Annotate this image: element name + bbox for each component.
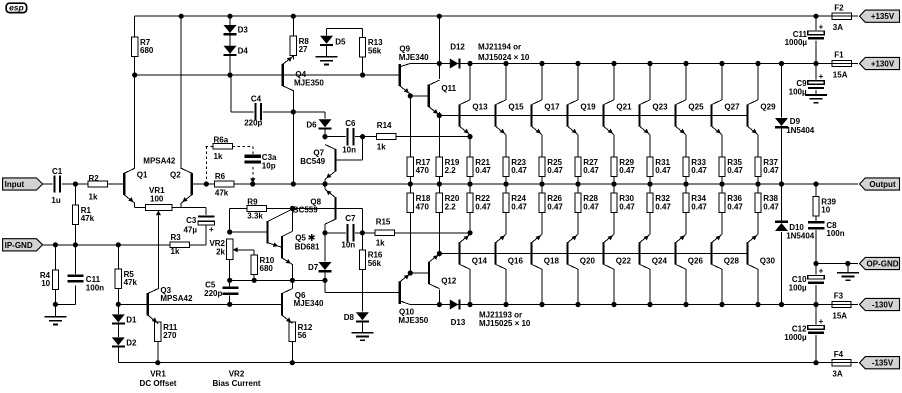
svg-text:D6: D6 xyxy=(306,120,317,129)
resistor R21 xyxy=(467,157,473,177)
svg-text:1k: 1k xyxy=(377,142,386,151)
resistor R22 xyxy=(467,193,473,213)
resistor R39 xyxy=(813,197,819,217)
resistor R10 xyxy=(251,255,257,275)
svg-text:Q14: Q14 xyxy=(472,256,488,265)
svg-text:Q17: Q17 xyxy=(544,103,560,112)
capacitor C5 xyxy=(222,286,238,295)
svg-text:R6: R6 xyxy=(215,172,226,181)
svg-text:Q29: Q29 xyxy=(760,103,776,112)
junction xyxy=(179,14,184,19)
resistor R31 xyxy=(647,157,653,177)
transistor Q26 xyxy=(674,242,676,264)
wire xyxy=(851,362,858,364)
wire R19-R20 column xyxy=(438,177,440,194)
junction xyxy=(575,302,580,307)
svg-text:270: 270 xyxy=(163,331,177,340)
capacitor C11 input xyxy=(67,274,83,283)
junction xyxy=(611,302,616,307)
svg-text:100n: 100n xyxy=(86,284,104,293)
svg-text:+: + xyxy=(209,225,214,234)
junction xyxy=(779,181,784,186)
svg-text:MJ15025 × 10: MJ15025 × 10 xyxy=(479,319,531,328)
transistor Q17 xyxy=(530,104,532,126)
wire Q12 base xyxy=(410,272,429,274)
wire -135V bottom rail xyxy=(118,362,832,364)
svg-text:-135V: -135V xyxy=(872,359,894,368)
wire Q1 emitter to VR1 xyxy=(134,203,136,207)
label Q5 heatsink star xyxy=(311,234,313,241)
svg-text:1000µ: 1000µ xyxy=(785,38,808,47)
svg-text:0.47: 0.47 xyxy=(619,202,635,211)
junction xyxy=(227,14,232,19)
junction xyxy=(467,134,472,139)
svg-text:0.47: 0.47 xyxy=(583,202,599,211)
resistor R4 xyxy=(52,270,58,290)
svg-text:Q30: Q30 xyxy=(760,256,776,265)
transistor Q14 xyxy=(458,242,460,264)
junction xyxy=(647,181,652,186)
potentiometer VR2 xyxy=(227,239,233,259)
svg-text:Bias Current: Bias Current xyxy=(212,379,260,388)
junction xyxy=(611,61,616,66)
junction xyxy=(360,72,365,77)
resistor R34 xyxy=(683,193,689,213)
svg-text:Q16: Q16 xyxy=(508,256,524,265)
resistor R2 xyxy=(88,181,108,187)
wire R8 column xyxy=(292,16,294,36)
diode D13 xyxy=(450,300,459,310)
wire R18-Q10 emitter column xyxy=(409,213,411,275)
svg-text:220p: 220p xyxy=(244,119,262,128)
svg-text:56: 56 xyxy=(298,331,307,340)
wire C6-R14 line xyxy=(325,136,470,138)
resistor R19 xyxy=(436,157,442,177)
wire Q4 collector to output rail xyxy=(292,112,294,184)
wire D4-C4 link xyxy=(230,75,232,112)
svg-text:OP-GND: OP-GND xyxy=(867,260,899,269)
svg-text:0.47: 0.47 xyxy=(619,166,635,175)
svg-text:+: + xyxy=(819,72,824,81)
resistor R28 xyxy=(575,193,581,213)
junction xyxy=(437,251,442,256)
wire output column Q21 xyxy=(613,64,615,101)
svg-text:1k: 1k xyxy=(89,192,98,201)
svg-text:Q5: Q5 xyxy=(295,233,306,242)
svg-text:R6a: R6a xyxy=(214,136,229,145)
svg-text:15A: 15A xyxy=(832,311,847,320)
svg-text:100: 100 xyxy=(150,194,164,203)
svg-text:1k: 1k xyxy=(171,247,180,256)
svg-text:15A: 15A xyxy=(833,70,848,79)
junction xyxy=(755,181,760,186)
junction xyxy=(503,61,508,66)
junction xyxy=(73,242,78,247)
wire D5 ground lead xyxy=(326,45,328,57)
wire Q9 collector bend xyxy=(400,64,410,67)
svg-text:DC Offset: DC Offset xyxy=(140,379,177,388)
wire xyxy=(74,285,76,304)
svg-text:D2: D2 xyxy=(126,338,137,347)
wire VR2 bottom line xyxy=(230,279,325,281)
svg-text:R15: R15 xyxy=(376,218,391,227)
wire R7 column xyxy=(134,16,136,75)
svg-text:C6: C6 xyxy=(345,119,356,128)
svg-text:MJ21194 or: MJ21194 or xyxy=(478,42,521,51)
wire D6-C6 lead xyxy=(324,129,326,137)
resistor R29 xyxy=(611,157,617,177)
transistor Q5 darlington output xyxy=(281,236,283,258)
svg-text:0.47: 0.47 xyxy=(475,166,491,175)
resistor R9 xyxy=(247,206,266,212)
fuse F4 xyxy=(832,362,851,364)
svg-text:220p: 220p xyxy=(204,289,222,298)
capacitor C3a xyxy=(245,155,261,164)
junction xyxy=(250,181,255,186)
transistor Q15 xyxy=(494,104,496,126)
transistor Q16 xyxy=(494,242,496,264)
wire input line xyxy=(43,183,123,185)
svg-text:Q11: Q11 xyxy=(441,84,456,93)
wire Q12 emitter lead xyxy=(438,254,440,257)
transistor Q4 xyxy=(282,64,284,86)
wire C7-R15 line xyxy=(325,232,470,234)
wire output column Q25 xyxy=(685,64,687,101)
transistor Q23 xyxy=(638,104,640,126)
svg-text:D7: D7 xyxy=(308,263,319,272)
transistor Q8 xyxy=(334,197,336,219)
wire R39 leads xyxy=(815,184,817,197)
fuse F1 xyxy=(832,63,851,65)
wire xyxy=(229,208,231,232)
wire Q3-Q6 base line xyxy=(118,303,282,305)
wire Q1-collector / VAS base line xyxy=(135,74,401,76)
svg-text:VR1: VR1 xyxy=(150,369,166,378)
svg-text:680: 680 xyxy=(140,46,154,55)
svg-text:0.47: 0.47 xyxy=(583,166,599,175)
net flag OP-GND xyxy=(860,257,900,269)
capacitor C10 xyxy=(808,275,825,286)
wire R17-R18 column xyxy=(409,177,411,194)
diode D2 xyxy=(112,337,125,345)
wire Q5 collector node xyxy=(292,208,294,231)
svg-text:+: + xyxy=(819,267,824,276)
diode D3 xyxy=(224,25,237,33)
wire Q3 emitter-R11 xyxy=(157,323,159,325)
svg-text:MJE350: MJE350 xyxy=(294,79,324,88)
wire R5 lead xyxy=(117,245,119,269)
capacitor C6 xyxy=(346,128,355,146)
ESP logo xyxy=(6,3,26,12)
svg-text:F2: F2 xyxy=(834,3,844,12)
wire NPN output base rail xyxy=(439,115,748,117)
svg-text:+130V: +130V xyxy=(871,60,895,69)
wire Q7 collector lead xyxy=(324,137,326,140)
svg-text:47k: 47k xyxy=(81,214,95,223)
wire Q5 base lead xyxy=(230,231,268,233)
transistor Q19 xyxy=(566,104,568,126)
svg-text:1000µ: 1000µ xyxy=(784,333,807,342)
svg-text:BC559: BC559 xyxy=(293,206,318,215)
svg-text:0.47: 0.47 xyxy=(547,202,563,211)
svg-text:D1: D1 xyxy=(126,315,137,324)
wire VR2 lower lead xyxy=(229,259,231,280)
resistor R14 xyxy=(376,134,396,140)
wire D10 leads xyxy=(781,184,783,222)
diode D9 xyxy=(775,118,788,126)
resistor R37 xyxy=(755,157,761,177)
svg-text:R2: R2 xyxy=(89,174,100,183)
resistor R26 xyxy=(539,193,545,213)
ground D5 xyxy=(316,56,338,58)
wire C5 lower lead xyxy=(229,295,231,304)
resistor R5 xyxy=(115,269,121,289)
junction xyxy=(683,181,688,186)
svg-text:VR2: VR2 xyxy=(229,369,245,378)
resistor R16 xyxy=(359,250,365,269)
svg-text:Q25: Q25 xyxy=(688,103,704,112)
svg-text:0.47: 0.47 xyxy=(691,202,707,211)
capacitor C4 xyxy=(254,103,263,121)
svg-text:56k: 56k xyxy=(368,259,382,268)
wire output column Q27 xyxy=(721,64,723,101)
resistor R7 xyxy=(132,37,138,57)
junction xyxy=(813,181,818,186)
svg-text:47k: 47k xyxy=(124,278,138,287)
junction xyxy=(575,181,580,186)
svg-text:Q21: Q21 xyxy=(616,103,632,112)
svg-text:D12: D12 xyxy=(450,43,465,52)
capacitor C8 xyxy=(808,221,824,230)
junction xyxy=(779,61,784,66)
wire LTP emitter / VR1 line xyxy=(135,207,207,209)
svg-text:0.47: 0.47 xyxy=(763,166,779,175)
wire D5-R13 link xyxy=(327,28,363,30)
wire Q7 base lead xyxy=(336,159,363,161)
resistor R13 xyxy=(360,37,366,57)
junction xyxy=(503,181,508,186)
wire R20 lead xyxy=(438,213,440,254)
capacitor C12 xyxy=(808,325,825,336)
svg-text:1u: 1u xyxy=(51,196,60,205)
transistor Q18 xyxy=(530,242,532,264)
svg-text:3.3k: 3.3k xyxy=(247,212,263,221)
net flag Output xyxy=(860,178,900,190)
svg-text:esp: esp xyxy=(9,3,24,13)
svg-text:+: + xyxy=(819,317,824,326)
wire C8 lower lead xyxy=(815,229,817,263)
wire D6 link xyxy=(293,111,325,113)
svg-text:Q26: Q26 xyxy=(688,256,704,265)
junction xyxy=(813,61,818,66)
diode D5 xyxy=(320,36,333,44)
wire R10 lower lead xyxy=(253,275,255,281)
wire xyxy=(54,290,56,305)
junction xyxy=(611,181,616,186)
transistor Q1 xyxy=(123,173,125,195)
svg-text:27: 27 xyxy=(299,45,308,54)
wire R1 leads xyxy=(74,184,76,205)
wire C11 leads xyxy=(815,16,817,30)
svg-text:1k: 1k xyxy=(376,238,385,247)
junction xyxy=(291,14,296,19)
wire xyxy=(851,304,858,306)
transistor Q6 xyxy=(281,293,283,315)
wire Q8 collector lead xyxy=(324,224,326,233)
wire IP-GND rail xyxy=(43,244,206,246)
junction xyxy=(575,61,580,66)
svg-text:C4: C4 xyxy=(251,95,262,104)
wire R16-D8 link xyxy=(361,269,363,311)
svg-text:0.47: 0.47 xyxy=(655,166,671,175)
resistor R18 xyxy=(407,193,413,213)
svg-text:0.47: 0.47 xyxy=(511,202,527,211)
wire Q8 emitter lead xyxy=(324,184,326,189)
resistor R35 xyxy=(719,157,725,177)
wire Q12 collector lead xyxy=(438,289,440,304)
wire Q7 emitter lead xyxy=(324,179,326,184)
svg-text:MJE340: MJE340 xyxy=(399,53,429,62)
diode D8 xyxy=(356,312,369,320)
junction xyxy=(647,61,652,66)
svg-text:Input: Input xyxy=(5,180,25,189)
resistor R3 xyxy=(170,242,190,248)
wire xyxy=(74,245,76,275)
potentiometer VR1 xyxy=(146,205,173,211)
svg-text:Q15: Q15 xyxy=(508,103,524,112)
svg-text:Q23: Q23 xyxy=(652,103,668,112)
wire Q4 emitter lead xyxy=(292,56,294,60)
svg-text:0.47: 0.47 xyxy=(475,202,491,211)
svg-text:D4: D4 xyxy=(238,46,249,55)
svg-text:2.2: 2.2 xyxy=(445,202,457,211)
junction xyxy=(227,278,232,283)
junction xyxy=(322,278,327,283)
svg-text:Q22: Q22 xyxy=(616,256,632,265)
wire +135V top rail xyxy=(135,15,832,17)
wire Q5 emitter lead xyxy=(292,264,294,280)
svg-text:Q2: Q2 xyxy=(170,170,181,179)
junction xyxy=(539,302,544,307)
svg-text:0.47: 0.47 xyxy=(655,202,671,211)
net flag +130V xyxy=(860,57,900,69)
svg-text:D3: D3 xyxy=(238,26,249,35)
wire xyxy=(851,15,857,17)
ground D8 xyxy=(351,332,373,334)
transistor Q13 xyxy=(458,104,460,126)
junction xyxy=(227,302,232,307)
wire C10 leads xyxy=(815,264,817,275)
transistor Q11 xyxy=(428,85,430,107)
wire R10 wiper link xyxy=(236,249,254,251)
wire xyxy=(205,208,207,215)
junction xyxy=(437,61,442,66)
junction xyxy=(539,181,544,186)
junction xyxy=(73,181,78,186)
transistor Q29 xyxy=(746,104,748,126)
transistor Q7 xyxy=(334,149,336,171)
svg-text:R14: R14 xyxy=(377,121,392,130)
wire C3a dashed leads xyxy=(252,146,254,154)
wire xyxy=(54,304,56,317)
svg-text:1k: 1k xyxy=(214,152,223,161)
junction xyxy=(155,360,160,365)
resistor R25 xyxy=(539,157,545,177)
svg-text:100n: 100n xyxy=(826,229,844,238)
svg-text:0.47: 0.47 xyxy=(727,202,743,211)
wire OP-GND line xyxy=(816,263,858,265)
svg-text:IP-GND: IP-GND xyxy=(5,241,33,250)
svg-text:MPSA42: MPSA42 xyxy=(143,157,176,166)
wire xyxy=(851,63,857,65)
resistor R17 xyxy=(407,157,413,177)
wire D9 leads xyxy=(781,64,783,118)
svg-text:+135V: +135V xyxy=(871,12,895,21)
junction xyxy=(719,61,724,66)
transistor Q21 xyxy=(602,104,604,126)
svg-text:470: 470 xyxy=(416,202,430,211)
wire Q10 base line xyxy=(325,292,400,294)
wire R11 lead xyxy=(157,342,159,363)
diode D12 xyxy=(450,59,459,69)
resistor R27 xyxy=(575,157,581,177)
svg-text:Q27: Q27 xyxy=(724,103,740,112)
svg-text:Q19: Q19 xyxy=(580,103,596,112)
wire R12 lead xyxy=(291,342,293,363)
svg-text:Q12: Q12 xyxy=(441,277,457,286)
junction xyxy=(467,181,472,186)
diode D1 xyxy=(112,314,125,322)
svg-text:BC549: BC549 xyxy=(300,157,325,166)
junction xyxy=(322,181,327,186)
svg-text:F3: F3 xyxy=(834,292,844,301)
junction xyxy=(291,109,296,114)
junction xyxy=(437,14,442,19)
wire output column Q13 xyxy=(469,64,471,101)
wire output rail / feedback line xyxy=(191,183,858,185)
wire VR1 wiper / Q3 collector xyxy=(157,216,159,289)
wire R6a dashed right xyxy=(233,145,253,147)
wire D7 leads xyxy=(324,233,326,262)
capacitor C9 xyxy=(808,80,825,91)
svg-text:Q1: Q1 xyxy=(137,170,148,179)
svg-text:Q18: Q18 xyxy=(544,256,560,265)
net flag -130V xyxy=(860,298,900,310)
junction xyxy=(813,261,818,266)
wire Q2 emitter xyxy=(180,203,182,207)
junction xyxy=(116,302,121,307)
diode D6 xyxy=(319,119,332,127)
net flag -135V xyxy=(860,357,900,369)
wire R16 lead xyxy=(361,233,363,250)
transistor Q24 xyxy=(638,242,640,264)
junction xyxy=(116,242,121,247)
svg-text:Q24: Q24 xyxy=(652,256,668,265)
transistor Q3 xyxy=(147,293,149,315)
diode D10 xyxy=(775,221,788,223)
resistor R24 xyxy=(503,193,509,213)
svg-text:C7: C7 xyxy=(345,214,356,223)
junction xyxy=(719,302,724,307)
junction xyxy=(290,360,295,365)
junction xyxy=(755,61,760,66)
wire R13 lead xyxy=(362,57,364,75)
svg-text:C1: C1 xyxy=(52,167,63,176)
svg-text:0.47: 0.47 xyxy=(691,166,707,175)
wire R19 lead xyxy=(438,116,440,158)
ground OP-GND xyxy=(837,272,859,274)
junction xyxy=(204,181,209,186)
